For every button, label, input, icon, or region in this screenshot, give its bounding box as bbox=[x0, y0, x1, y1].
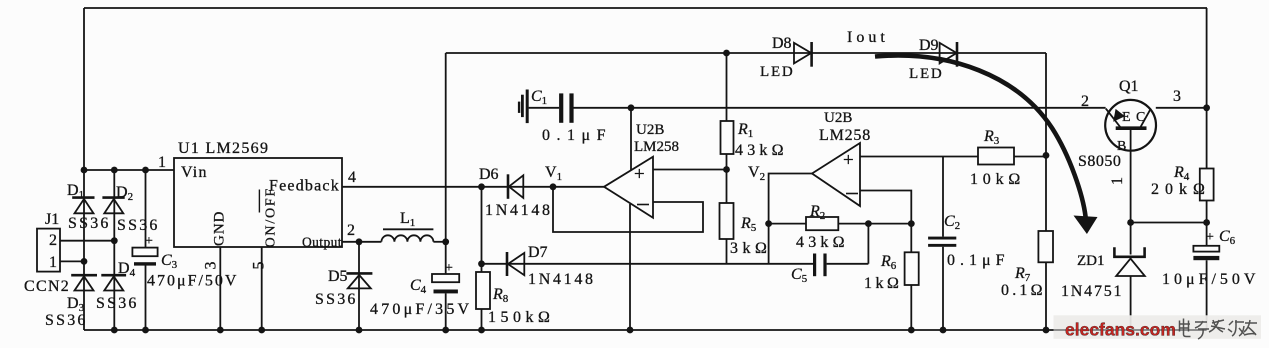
svg-text:C2: C2 bbox=[944, 213, 960, 232]
wire left border rail bbox=[83, 8, 85, 330]
svg-text:1N4148: 1N4148 bbox=[528, 271, 596, 288]
svg-text:SS36: SS36 bbox=[45, 312, 88, 329]
wire Q1 base column through ZD1 bbox=[1130, 128, 1132, 330]
svg-text:Vin: Vin bbox=[181, 164, 208, 181]
svg-text:1: 1 bbox=[158, 154, 166, 171]
svg-text:U2B: U2B bbox=[636, 122, 664, 138]
capacitor C5 plates bbox=[813, 254, 816, 277]
wire D5 column bbox=[358, 242, 360, 330]
wire U1 pin3 GND drop bbox=[219, 247, 221, 330]
wire op-amp1 non-inverting input row bbox=[653, 169, 727, 171]
svg-text:C3: C3 bbox=[161, 252, 178, 271]
svg-text:0.1Ω: 0.1Ω bbox=[1001, 282, 1046, 299]
svg-text:D7: D7 bbox=[528, 244, 548, 261]
wire L1 right to C4 node bbox=[433, 241, 445, 243]
svg-text:D1: D1 bbox=[67, 182, 84, 201]
svg-text:470μF/50V: 470μF/50V bbox=[147, 273, 238, 290]
svg-text:GND: GND bbox=[212, 211, 228, 247]
svg-text:1kΩ: 1kΩ bbox=[864, 275, 902, 292]
connector J1 box bbox=[37, 229, 60, 272]
wire C3 column bbox=[145, 170, 147, 330]
wire C4 column bbox=[445, 242, 447, 330]
svg-text:Feedback: Feedback bbox=[269, 178, 340, 195]
svg-text:1: 1 bbox=[49, 254, 57, 271]
capacitor C1 plates bbox=[559, 93, 563, 122]
svg-text:1N4751: 1N4751 bbox=[1061, 283, 1123, 300]
resistor R1 bbox=[721, 121, 734, 154]
op-amp U2B-A box U1 LM2569 bbox=[174, 158, 342, 247]
svg-text:2: 2 bbox=[1081, 93, 1089, 110]
svg-text:D5: D5 bbox=[328, 268, 348, 285]
svg-text:CCN2: CCN2 bbox=[24, 278, 70, 295]
svg-text:R1: R1 bbox=[737, 121, 753, 140]
diode D1 bbox=[72, 196, 94, 199]
diode D6 bbox=[507, 174, 510, 199]
svg-text:150kΩ: 150kΩ bbox=[488, 309, 554, 326]
wire op-amp2 output to V2 node bbox=[769, 174, 812, 264]
resistor R6 bbox=[905, 252, 919, 285]
svg-text:R8: R8 bbox=[492, 286, 509, 305]
svg-text:C: C bbox=[1136, 110, 1145, 125]
wire J1 pin1 lead bbox=[60, 260, 84, 262]
wire right border rail (interrupted by C6 gap) bbox=[1206, 8, 1208, 330]
svg-text:C6: C6 bbox=[1219, 228, 1236, 247]
thick Iout indicator arrow curve bbox=[875, 56, 1086, 217]
wire Feedback row to op-amp1 output bbox=[342, 186, 604, 188]
svg-text:R3: R3 bbox=[983, 128, 1000, 147]
wire bridge right column D2/D4 bbox=[113, 170, 115, 330]
svg-text:B: B bbox=[1117, 139, 1126, 154]
transistor Q1 emitter arrow bbox=[1113, 109, 1125, 122]
wire op-amp1 V- ground drop bbox=[629, 204, 631, 330]
diode D8 LED bbox=[810, 42, 813, 67]
svg-text:5: 5 bbox=[251, 262, 268, 270]
wire bottom ground bus bbox=[84, 329, 1207, 331]
svg-text:20kΩ: 20kΩ bbox=[1151, 181, 1211, 198]
wire U1 pin5 ON/OFF drop bbox=[261, 247, 263, 330]
svg-text:SS36: SS36 bbox=[315, 291, 358, 308]
wire C1 supply row to Q1 emitter bbox=[529, 107, 1106, 109]
svg-text:D4: D4 bbox=[118, 260, 136, 279]
wire R7 sense column bbox=[1045, 155, 1047, 330]
svg-text:Iout: Iout bbox=[847, 29, 889, 46]
wire R1/R5 divider column bbox=[726, 53, 728, 264]
ground symbol at C1 bbox=[526, 90, 529, 124]
wire op-amp2 inverting input drop bbox=[860, 191, 911, 331]
svg-text:L1: L1 bbox=[400, 210, 415, 229]
svg-text:ZD1: ZD1 bbox=[1077, 253, 1105, 269]
svg-text:Output: Output bbox=[302, 235, 342, 250]
svg-text:+: + bbox=[634, 164, 645, 185]
wire J1 pin2 lead bbox=[60, 240, 114, 242]
wire top border rail bbox=[84, 7, 1207, 9]
diode D9 LED bbox=[956, 42, 959, 67]
svg-text:Q1: Q1 bbox=[1119, 78, 1139, 95]
svg-text:C4: C4 bbox=[410, 277, 427, 296]
watermark greyed bus segment bbox=[1054, 329, 1207, 331]
resistor R4 bbox=[1200, 169, 1214, 201]
svg-text:V2: V2 bbox=[748, 164, 765, 183]
resistor R7 bbox=[1038, 231, 1053, 262]
svg-text:D2: D2 bbox=[116, 184, 133, 203]
svg-text:1: 1 bbox=[1109, 177, 1126, 185]
capacitor C4 electrolytic plates bbox=[432, 274, 459, 282]
op-amp U2B first (points left) bbox=[604, 157, 653, 218]
resistor R2 bbox=[806, 217, 838, 230]
wire switch-node riser and D8/D9 top row bbox=[446, 53, 1046, 242]
wire op-amp1 inverting feedback loop to V1 bbox=[553, 187, 703, 232]
wire Output pin2 row bbox=[342, 241, 381, 243]
minus in op-amp1 bbox=[637, 204, 649, 206]
svg-text:43kΩ: 43kΩ bbox=[796, 234, 849, 251]
svg-text:10μF/50V: 10μF/50V bbox=[1162, 271, 1259, 288]
svg-text:E: E bbox=[1122, 110, 1131, 125]
wire Q1 collector row pin3 bbox=[1156, 107, 1207, 109]
svg-text:LED: LED bbox=[760, 64, 795, 80]
svg-text:10kΩ: 10kΩ bbox=[970, 171, 1025, 188]
minus in op-amp2 bbox=[846, 193, 858, 195]
wire op-amp1 V+ supply stub bbox=[630, 108, 632, 171]
diode D3 bbox=[71, 274, 97, 277]
svg-text:D8: D8 bbox=[772, 35, 792, 52]
diode D4 bbox=[101, 274, 126, 277]
svg-text:SS36: SS36 bbox=[117, 217, 160, 234]
wire C2 column bbox=[942, 157, 944, 331]
wire D7 row / C5 branch bbox=[482, 224, 869, 264]
svg-text:+: + bbox=[843, 150, 854, 171]
svg-text:3: 3 bbox=[1173, 88, 1181, 105]
svg-text:4: 4 bbox=[348, 169, 356, 186]
transistor Q1 emitter diagonal bbox=[1106, 109, 1121, 128]
svg-text:S8050: S8050 bbox=[1078, 153, 1121, 170]
diode D7 bbox=[506, 252, 509, 276]
svg-text:LED: LED bbox=[909, 66, 944, 82]
svg-text:R6: R6 bbox=[880, 253, 897, 272]
transistor Q1 base bar bbox=[1116, 126, 1147, 130]
wire R8 / feedback node column bbox=[481, 187, 483, 330]
wire op-amp2 non-inverting row through R3 bbox=[860, 156, 1046, 158]
capacitor C6 electrolytic plates bbox=[1193, 246, 1219, 252]
svg-text:3kΩ: 3kΩ bbox=[730, 240, 771, 257]
svg-text:+: + bbox=[445, 261, 453, 276]
svg-text:D6: D6 bbox=[479, 166, 499, 183]
svg-text:LM258: LM258 bbox=[819, 127, 871, 144]
svg-text:C1: C1 bbox=[531, 88, 547, 107]
diode D2 bbox=[102, 196, 124, 199]
svg-text:3: 3 bbox=[203, 262, 220, 270]
svg-text:R2: R2 bbox=[809, 203, 825, 222]
svg-text:V1: V1 bbox=[545, 164, 562, 183]
svg-text:0.1μF: 0.1μF bbox=[542, 127, 612, 144]
inductor L1 bbox=[383, 228, 433, 230]
zener ZD1 bbox=[1114, 247, 1144, 257]
svg-text:elecfans.com: elecfans.com bbox=[1065, 320, 1176, 340]
svg-text:2: 2 bbox=[347, 222, 355, 239]
svg-text:D9: D9 bbox=[919, 37, 939, 54]
svg-text:0.1μF: 0.1μF bbox=[947, 252, 1009, 269]
svg-text:470μF/35V: 470μF/35V bbox=[370, 301, 472, 318]
resistor R3 bbox=[978, 148, 1014, 165]
resistor R8 bbox=[476, 272, 490, 309]
svg-text:SS36: SS36 bbox=[96, 295, 139, 312]
svg-text:+: + bbox=[1206, 230, 1214, 245]
capacitor C2 plates bbox=[928, 237, 956, 240]
wire R2 feedback row bbox=[769, 223, 912, 225]
svg-text:U1 LM2569: U1 LM2569 bbox=[178, 140, 269, 157]
capacitor C3 electrolytic plates bbox=[132, 248, 157, 257]
svg-text:C5: C5 bbox=[791, 266, 808, 285]
watermark background strip bbox=[1054, 315, 1262, 339]
transistor Q1 collector diagonal bbox=[1140, 109, 1151, 128]
watermark chinese brand glyphs bbox=[1179, 319, 1257, 340]
svg-text:R5: R5 bbox=[740, 215, 757, 234]
svg-text:J1: J1 bbox=[45, 211, 59, 228]
svg-text:U2B: U2B bbox=[824, 110, 852, 126]
svg-text:1N4148: 1N4148 bbox=[485, 202, 553, 219]
svg-text:SS36: SS36 bbox=[68, 215, 111, 232]
svg-text:43kΩ: 43kΩ bbox=[735, 142, 788, 159]
svg-text:ON/OFF: ON/OFF bbox=[264, 187, 279, 248]
diode D5 freewheel bbox=[346, 272, 372, 275]
op-amp U2B second (points left) bbox=[812, 143, 860, 206]
wire Vin row pin1 bbox=[84, 169, 174, 171]
wire base node row to R4/C6 column bbox=[1131, 222, 1207, 224]
resistor R5 bbox=[720, 203, 734, 239]
overline for ON/OFF bbox=[258, 190, 260, 213]
svg-text:LM258: LM258 bbox=[634, 139, 679, 155]
svg-text:+: + bbox=[145, 234, 153, 249]
svg-text:2: 2 bbox=[49, 232, 57, 249]
transistor Q1 circle bbox=[1105, 100, 1156, 151]
